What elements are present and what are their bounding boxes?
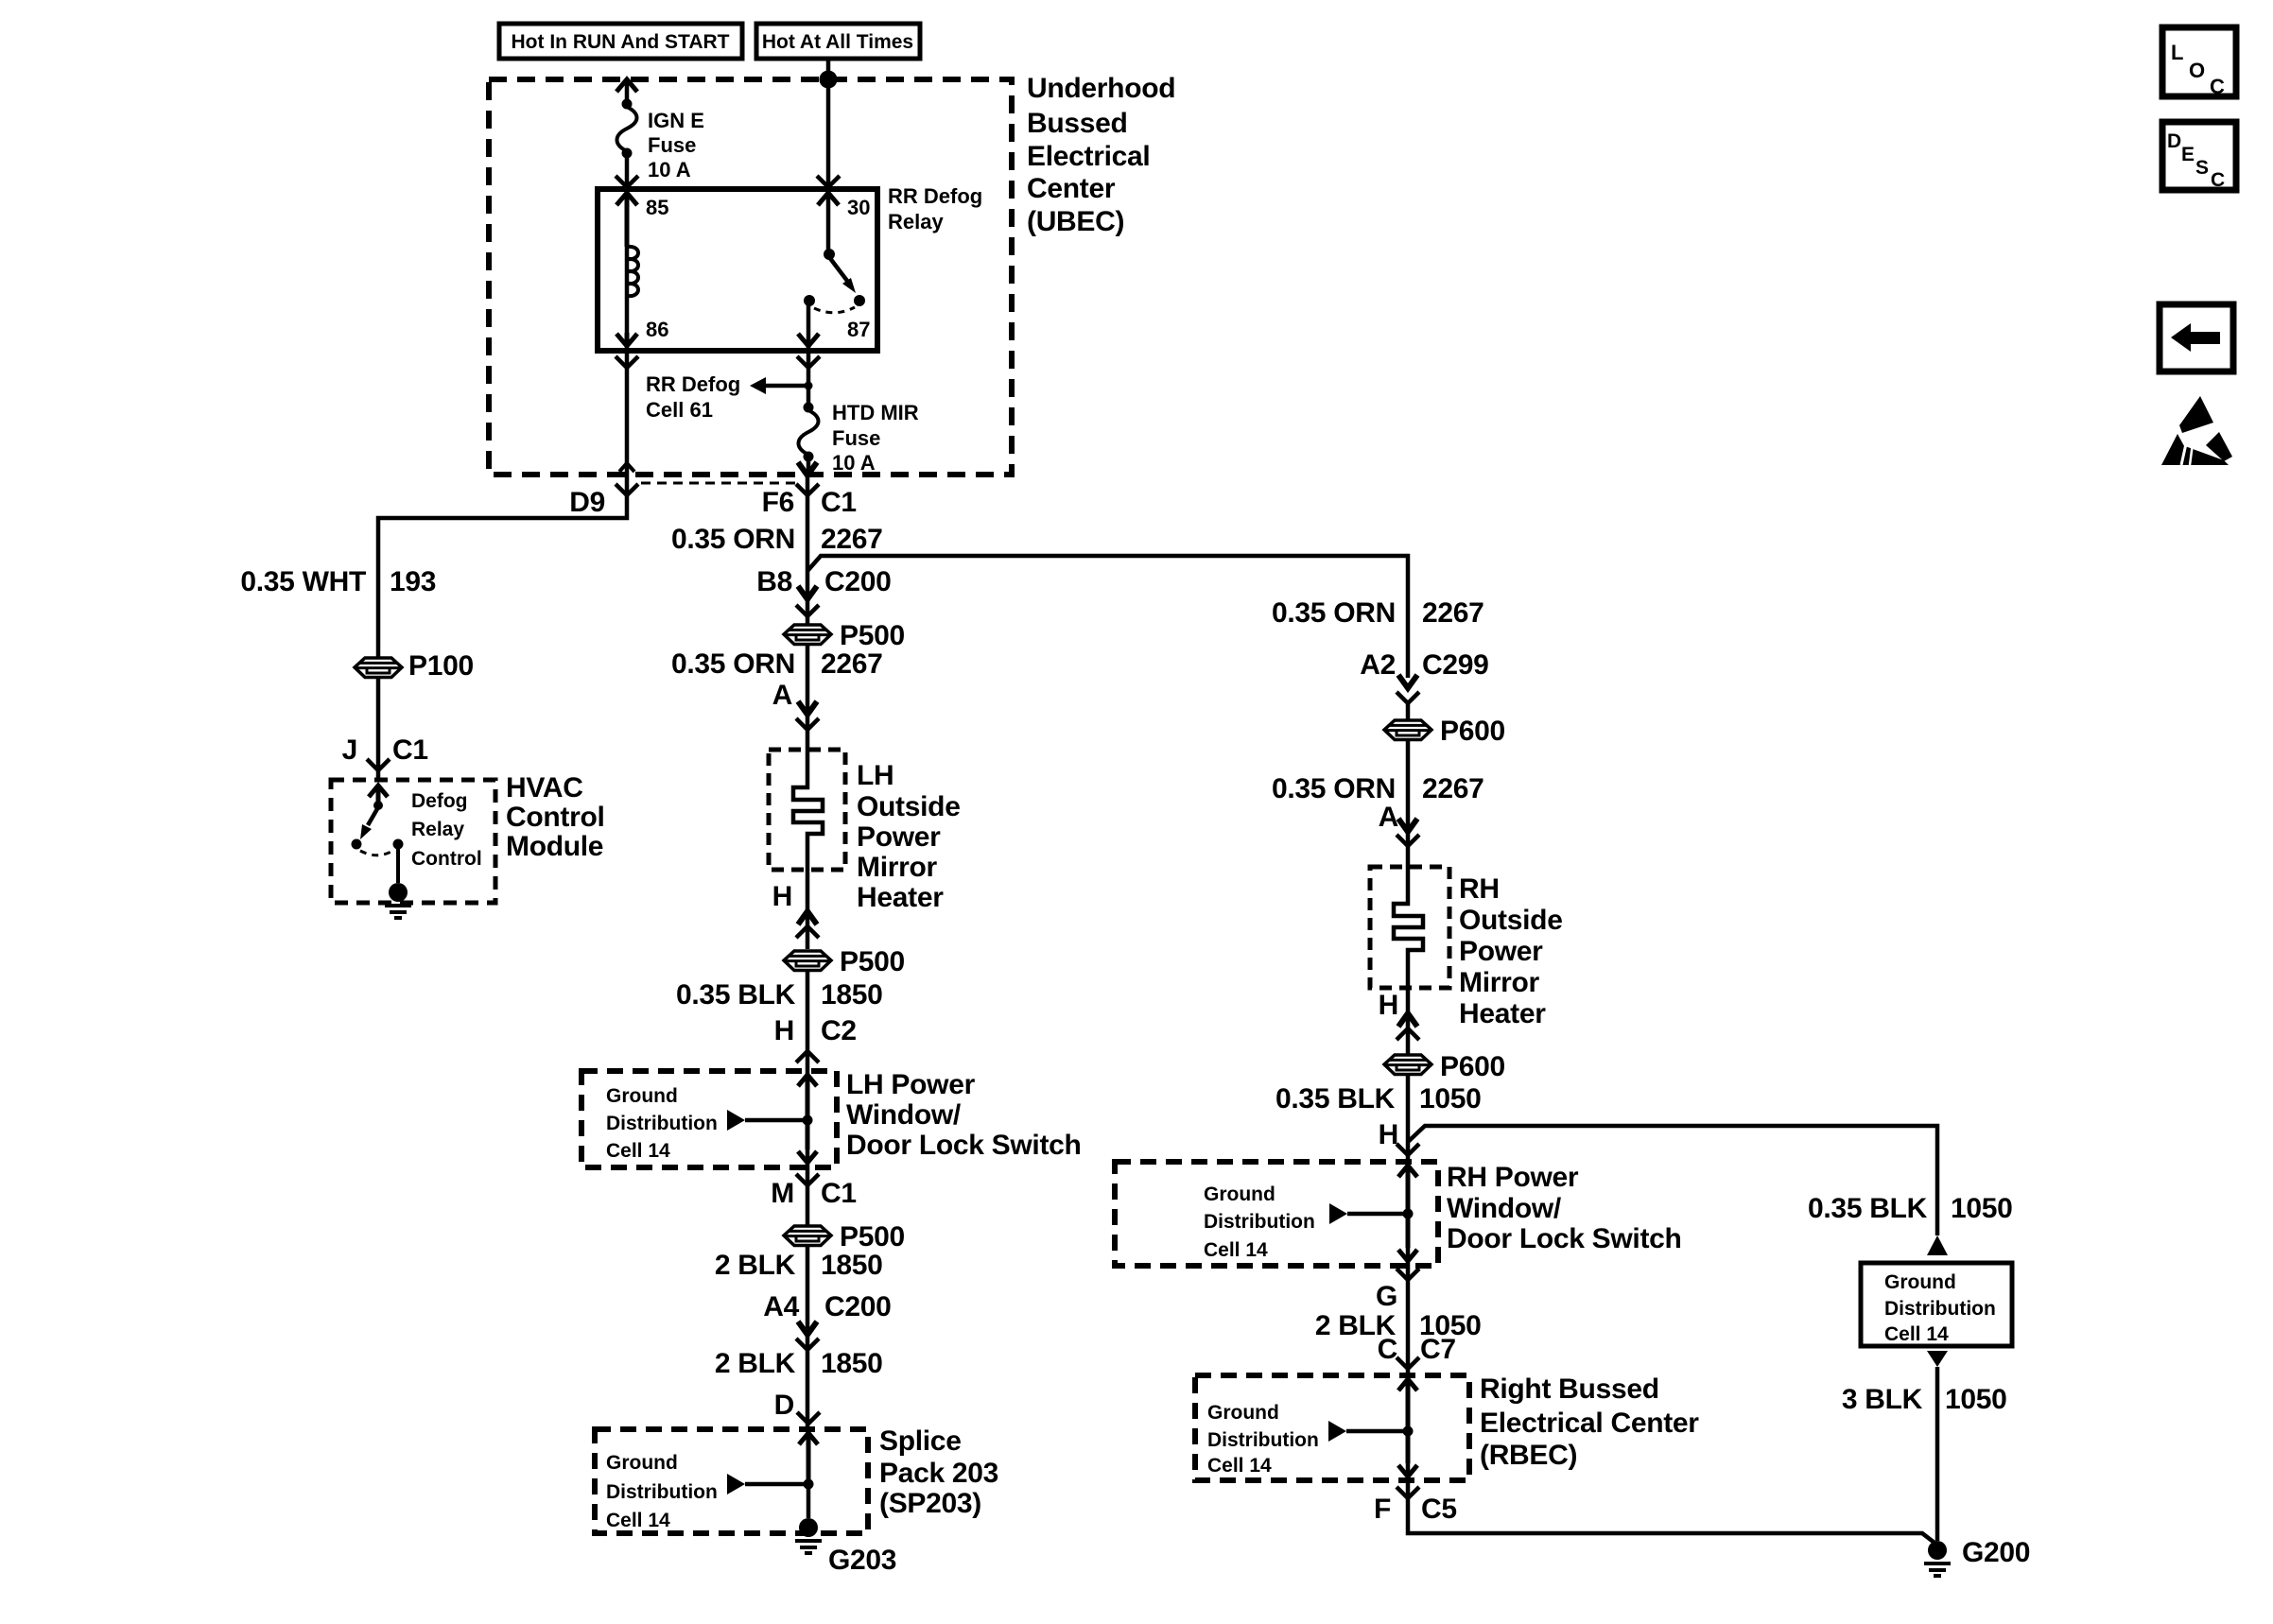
svg-text:RH: RH — [1459, 873, 1500, 905]
svg-text:Distribution: Distribution — [606, 1481, 718, 1503]
svg-text:1050: 1050 — [1419, 1083, 1482, 1114]
svg-text:C: C — [2210, 75, 2225, 98]
svg-text:1850: 1850 — [821, 1250, 883, 1281]
svg-text:Mirror: Mirror — [857, 852, 938, 883]
svg-text:Bussed: Bussed — [1027, 108, 1128, 139]
svg-text:Electrical: Electrical — [1027, 141, 1150, 172]
svg-text:P100: P100 — [408, 650, 474, 682]
svg-text:0.35 ORN: 0.35 ORN — [1272, 597, 1396, 629]
svg-text:O: O — [2189, 59, 2205, 82]
svg-text:RR Defog: RR Defog — [646, 372, 740, 396]
svg-text:G200: G200 — [1962, 1537, 2030, 1568]
svg-text:Right Bussed: Right Bussed — [1480, 1373, 1659, 1405]
svg-text:10 A: 10 A — [832, 451, 876, 475]
svg-text:F6: F6 — [762, 487, 794, 518]
svg-text:Defog: Defog — [411, 790, 468, 812]
svg-text:Hot In RUN And START: Hot In RUN And START — [512, 31, 730, 53]
svg-text:1050: 1050 — [1945, 1384, 2007, 1415]
svg-text:10 A: 10 A — [648, 158, 691, 181]
svg-text:Underhood: Underhood — [1027, 73, 1175, 104]
svg-text:Electrical Center: Electrical Center — [1480, 1408, 1699, 1439]
svg-text:H: H — [774, 1015, 794, 1046]
svg-text:0.35 BLK: 0.35 BLK — [1808, 1193, 1928, 1224]
svg-text:Power: Power — [857, 821, 941, 853]
svg-text:Control: Control — [506, 802, 605, 833]
svg-text:D: D — [774, 1390, 794, 1421]
svg-text:85: 85 — [646, 196, 668, 219]
svg-text:Ground: Ground — [1204, 1183, 1275, 1205]
svg-text:Control: Control — [411, 848, 482, 870]
svg-text:HTD MIR: HTD MIR — [832, 401, 919, 424]
svg-text:Ground: Ground — [606, 1085, 678, 1107]
svg-text:LH Power: LH Power — [846, 1069, 976, 1100]
svg-text:C: C — [1378, 1334, 1397, 1365]
svg-text:Distribution: Distribution — [606, 1113, 718, 1134]
svg-text:Outside: Outside — [1459, 905, 1563, 936]
svg-text:Outside: Outside — [857, 791, 961, 822]
svg-text:1050: 1050 — [1951, 1193, 2013, 1224]
svg-text:P600: P600 — [1440, 1051, 1505, 1082]
svg-text:J: J — [342, 734, 357, 766]
svg-text:Heater: Heater — [1459, 998, 1546, 1029]
svg-text:G: G — [1376, 1281, 1397, 1312]
svg-text:D: D — [2167, 130, 2181, 152]
svg-text:2 BLK: 2 BLK — [715, 1348, 796, 1379]
svg-text:S: S — [2195, 157, 2209, 179]
svg-text:Cell 14: Cell 14 — [1207, 1455, 1272, 1477]
svg-text:P500: P500 — [840, 946, 905, 977]
svg-text:Fuse: Fuse — [648, 133, 696, 157]
svg-text:HVAC: HVAC — [506, 772, 583, 803]
svg-text:A: A — [1379, 802, 1398, 833]
svg-text:C: C — [2211, 169, 2225, 191]
svg-text:Mirror: Mirror — [1459, 967, 1540, 998]
svg-text:0.35 WHT: 0.35 WHT — [240, 566, 366, 597]
svg-text:Cell 14: Cell 14 — [1884, 1323, 1949, 1345]
svg-text:Cell 14: Cell 14 — [606, 1510, 670, 1531]
svg-text:0.35 ORN: 0.35 ORN — [671, 524, 795, 555]
svg-text:(RBEC): (RBEC) — [1480, 1440, 1577, 1471]
svg-text:M: M — [771, 1178, 794, 1209]
svg-text:2267: 2267 — [821, 524, 883, 555]
svg-text:Module: Module — [506, 831, 603, 862]
svg-text:P500: P500 — [840, 1221, 905, 1253]
svg-text:1850: 1850 — [821, 979, 883, 1011]
svg-text:2267: 2267 — [1422, 597, 1484, 629]
svg-text:IGN E: IGN E — [648, 109, 704, 132]
svg-text:0.35 ORN: 0.35 ORN — [671, 648, 795, 680]
svg-text:2267: 2267 — [821, 648, 883, 680]
svg-text:Relay: Relay — [888, 210, 944, 233]
svg-text:C1: C1 — [821, 1178, 857, 1209]
svg-text:E: E — [2181, 144, 2195, 165]
svg-text:C1: C1 — [821, 487, 857, 518]
svg-text:Door Lock Switch: Door Lock Switch — [846, 1130, 1082, 1161]
svg-text:A2: A2 — [1360, 649, 1396, 681]
svg-text:(SP203): (SP203) — [879, 1488, 981, 1519]
svg-text:Cell 14: Cell 14 — [1204, 1239, 1268, 1261]
svg-text:Relay: Relay — [411, 819, 464, 840]
svg-text:Window/: Window/ — [846, 1099, 962, 1131]
svg-text:87: 87 — [847, 318, 870, 341]
svg-text:(UBEC): (UBEC) — [1027, 206, 1124, 237]
svg-text:B8: B8 — [756, 566, 792, 597]
svg-text:Center: Center — [1027, 173, 1116, 204]
svg-text:H: H — [1379, 990, 1398, 1021]
svg-text:Window/: Window/ — [1447, 1193, 1562, 1224]
svg-text:0.35 BLK: 0.35 BLK — [676, 979, 796, 1011]
svg-text:Cell 14: Cell 14 — [606, 1140, 670, 1162]
svg-text:Ground: Ground — [1207, 1402, 1279, 1424]
svg-text:Ground: Ground — [606, 1452, 678, 1474]
svg-text:2 BLK: 2 BLK — [715, 1250, 796, 1281]
svg-text:2267: 2267 — [1422, 773, 1484, 804]
svg-text:A: A — [772, 680, 792, 711]
svg-text:C200: C200 — [824, 1291, 892, 1322]
svg-text:C1: C1 — [392, 734, 428, 766]
svg-text:RH Power: RH Power — [1447, 1162, 1579, 1193]
svg-text:C200: C200 — [824, 566, 892, 597]
svg-text:LH: LH — [857, 760, 894, 791]
svg-text:0.35 BLK: 0.35 BLK — [1275, 1083, 1396, 1114]
svg-text:H: H — [1379, 1119, 1398, 1150]
svg-text:Pack 203: Pack 203 — [879, 1458, 998, 1489]
svg-text:0.35 ORN: 0.35 ORN — [1272, 773, 1396, 804]
svg-text:RR Defog: RR Defog — [888, 184, 982, 208]
svg-text:P600: P600 — [1440, 716, 1505, 747]
svg-text:F: F — [1374, 1494, 1391, 1525]
svg-text:1850: 1850 — [821, 1348, 883, 1379]
svg-text:C7: C7 — [1420, 1334, 1456, 1365]
svg-text:Cell 61: Cell 61 — [646, 398, 713, 422]
svg-text:C299: C299 — [1422, 649, 1489, 681]
svg-text:Distribution: Distribution — [1884, 1298, 1996, 1320]
svg-text:86: 86 — [646, 318, 668, 341]
svg-text:Heater: Heater — [857, 882, 944, 913]
svg-text:P500: P500 — [840, 620, 905, 651]
svg-text:G203: G203 — [828, 1545, 896, 1576]
svg-text:Fuse: Fuse — [832, 426, 880, 450]
svg-text:Ground: Ground — [1884, 1271, 1956, 1293]
svg-text:Distribution: Distribution — [1207, 1429, 1319, 1451]
svg-text:30: 30 — [847, 196, 870, 219]
svg-text:D9: D9 — [569, 487, 605, 518]
svg-text:Door Lock Switch: Door Lock Switch — [1447, 1223, 1682, 1254]
svg-text:Hot At All Times: Hot At All Times — [762, 31, 913, 53]
svg-text:Power: Power — [1459, 936, 1543, 967]
svg-text:3 BLK: 3 BLK — [1842, 1384, 1923, 1415]
svg-text:193: 193 — [390, 566, 436, 597]
svg-text:C2: C2 — [821, 1015, 857, 1046]
svg-text:H: H — [772, 881, 792, 912]
svg-text:Splice: Splice — [879, 1425, 962, 1457]
svg-text:C5: C5 — [1421, 1494, 1457, 1525]
svg-text:Distribution: Distribution — [1204, 1211, 1315, 1233]
svg-text:L: L — [2171, 41, 2183, 64]
svg-text:A4: A4 — [763, 1291, 799, 1322]
